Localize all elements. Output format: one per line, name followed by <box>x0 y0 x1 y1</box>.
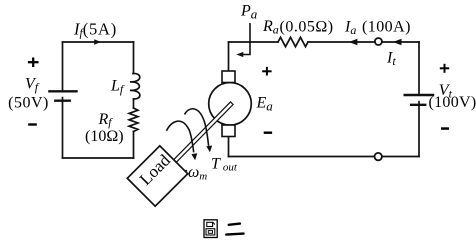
wire left-loop bottom <box>63 157 134 159</box>
svg-text:Ra: Ra <box>262 18 279 37</box>
svg-text:Tout: Tout <box>211 155 238 173</box>
rotation arc left <box>167 121 194 152</box>
wire right vertical lower <box>418 105 420 157</box>
wire field branch mid <box>133 99 135 108</box>
svg-text:Rf: Rf <box>98 111 114 129</box>
speck near omega <box>185 170 187 172</box>
brush bottom <box>222 125 235 137</box>
wire bottom rail <box>229 156 420 158</box>
svg-text:(100A): (100A) <box>362 19 411 36</box>
svg-text:(100V): (100V) <box>429 94 476 111</box>
caption glyph tu <box>204 220 217 238</box>
label plus Ea <box>262 67 271 76</box>
terminal bottom <box>375 153 382 160</box>
label minus Ea <box>264 132 272 134</box>
resistor Ra <box>278 37 308 46</box>
wire right vertical upper <box>418 42 420 95</box>
svg-text:Ia: Ia <box>344 19 356 38</box>
wire armature rail left <box>229 41 279 43</box>
battery Vf plate long <box>49 90 76 92</box>
battery Vf plate short <box>55 99 69 101</box>
battery Vt plate short <box>411 104 425 106</box>
motor armature circle <box>209 83 252 126</box>
svg-text:(50V): (50V) <box>8 95 49 112</box>
current arrow Ia <box>349 39 358 45</box>
label plus Vt <box>440 64 449 73</box>
terminal top <box>375 38 382 45</box>
svg-text:Ea: Ea <box>256 95 274 114</box>
wire left-loop top <box>63 41 134 43</box>
wire left vertical lower <box>62 101 64 158</box>
current arrow If <box>94 39 101 44</box>
svg-text:(10Ω): (10Ω) <box>85 128 124 145</box>
wire field branch upper <box>133 42 135 74</box>
svg-text:If(5A): If(5A) <box>73 20 117 40</box>
inductor Lf <box>130 73 140 98</box>
load box <box>127 146 187 206</box>
rotation arc right <box>185 109 209 146</box>
svg-text:Pa: Pa <box>240 3 258 22</box>
svg-text:It: It <box>386 50 396 69</box>
caption glyph er <box>226 224 243 235</box>
brush top <box>222 71 235 83</box>
wire motor bottom lead <box>228 137 230 157</box>
svg-text:ωm: ωm <box>188 164 207 182</box>
svg-text:Vf: Vf <box>25 76 40 95</box>
svg-text:Lf: Lf <box>110 78 125 97</box>
current arrow It <box>393 39 402 45</box>
shaft <box>174 102 233 162</box>
label plus Vf <box>28 58 39 68</box>
svg-text:(0.05Ω): (0.05Ω) <box>280 19 334 36</box>
wire motor top lead <box>228 42 230 71</box>
battery Vt plate long <box>405 94 433 96</box>
wire field branch lower <box>133 132 135 159</box>
wire left vertical upper <box>62 42 64 91</box>
node Pa arrow <box>240 23 250 55</box>
label minus Vt <box>441 127 449 130</box>
wire armature rail right <box>308 41 419 43</box>
resistor Rf <box>129 108 138 132</box>
label minus Vf <box>28 123 37 125</box>
